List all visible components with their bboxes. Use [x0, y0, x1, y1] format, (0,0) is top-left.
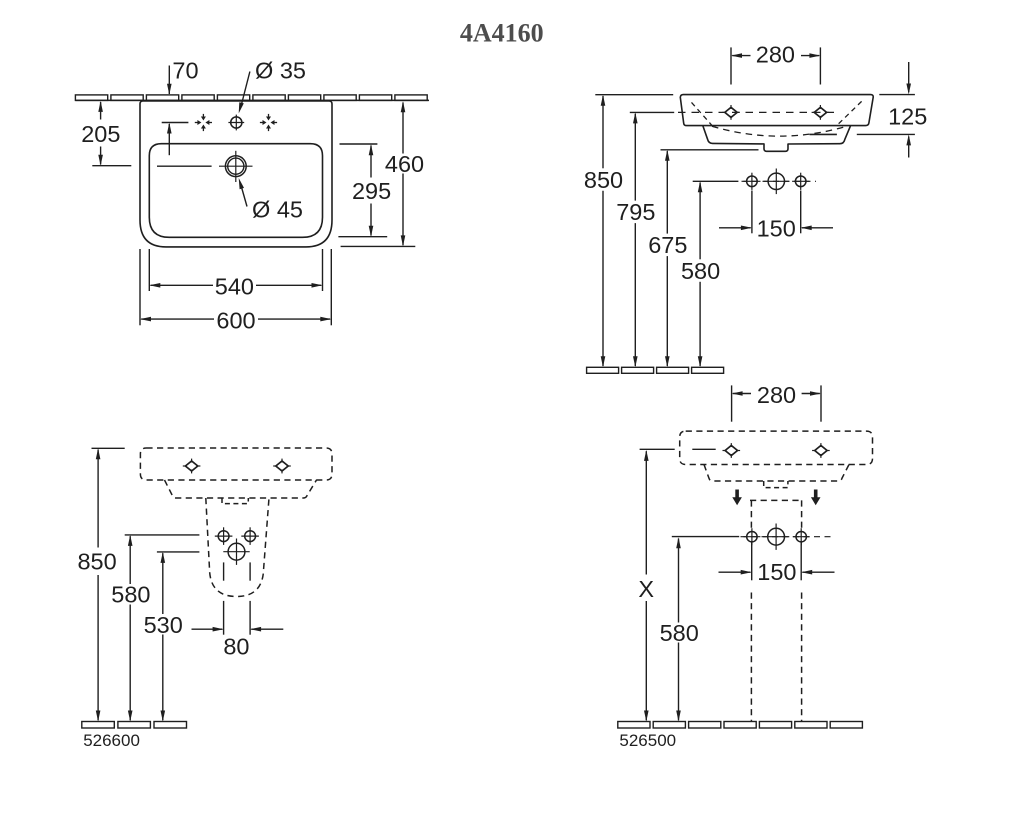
svg-text:526600: 526600 — [83, 731, 140, 750]
svg-text:675: 675 — [648, 232, 687, 258]
svg-text:4A4160: 4A4160 — [460, 19, 544, 48]
svg-text:580: 580 — [681, 258, 720, 284]
svg-text:526500: 526500 — [619, 731, 676, 750]
svg-text:125: 125 — [888, 103, 927, 129]
svg-text:150: 150 — [757, 559, 796, 585]
svg-text:X: X — [638, 576, 654, 602]
svg-text:80: 80 — [223, 634, 249, 660]
svg-text:280: 280 — [756, 42, 795, 68]
svg-text:Ø 35: Ø 35 — [255, 58, 306, 84]
svg-text:580: 580 — [111, 582, 150, 608]
svg-text:850: 850 — [77, 549, 116, 575]
svg-text:295: 295 — [352, 178, 391, 204]
svg-text:795: 795 — [616, 199, 655, 225]
svg-text:460: 460 — [385, 151, 424, 177]
svg-text:150: 150 — [757, 216, 796, 242]
svg-text:Ø 45: Ø 45 — [252, 197, 303, 223]
svg-text:280: 280 — [757, 382, 796, 408]
svg-text:540: 540 — [215, 274, 254, 300]
svg-text:600: 600 — [216, 307, 255, 333]
svg-text:530: 530 — [144, 612, 183, 638]
svg-text:70: 70 — [172, 58, 198, 84]
svg-text:580: 580 — [660, 620, 699, 646]
svg-text:850: 850 — [584, 167, 623, 193]
svg-text:205: 205 — [81, 121, 120, 147]
